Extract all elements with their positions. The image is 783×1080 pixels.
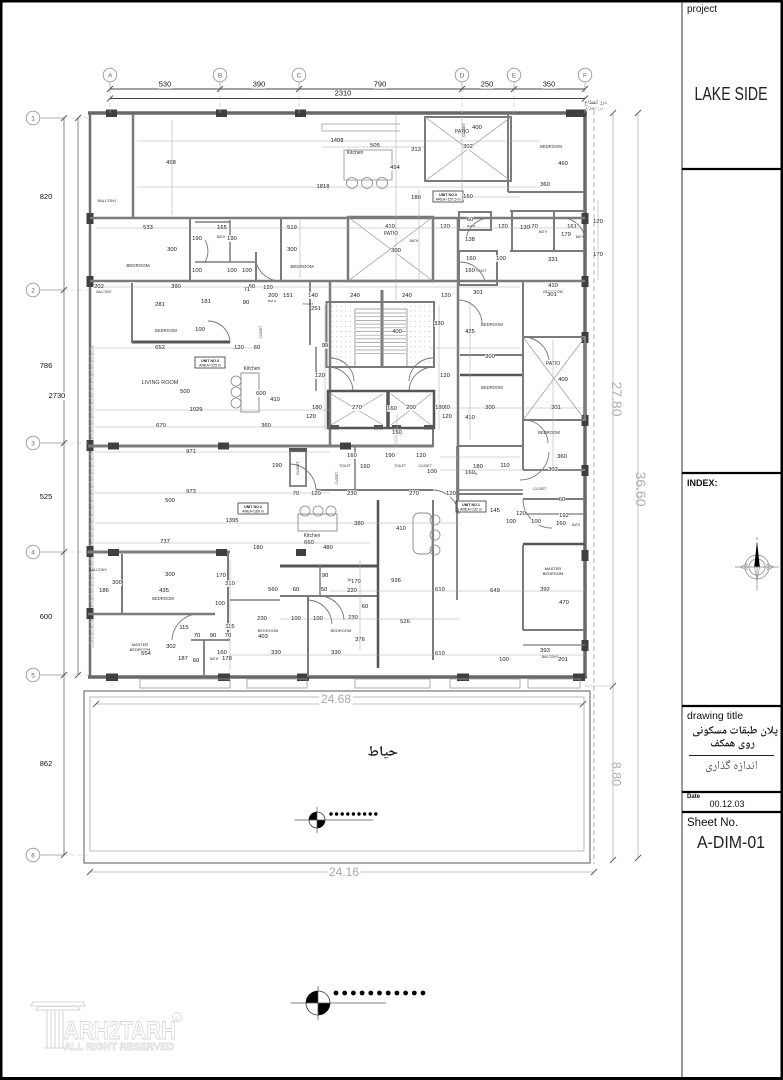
svg-text:200: 200 [268,293,278,299]
svg-text:100: 100 [195,327,205,333]
svg-text:120: 120 [442,414,452,420]
svg-text:drawing title: drawing title [687,710,743,722]
svg-text:470: 470 [559,600,569,606]
svg-text:60: 60 [293,587,299,593]
svg-text:100: 100 [427,469,437,475]
svg-text:UNIT NO.3: UNIT NO.3 [439,193,457,197]
svg-text:BEDROOM: BEDROOM [155,328,177,333]
svg-text:90: 90 [243,300,249,306]
svg-text:393: 393 [540,648,550,654]
svg-text:179: 179 [561,232,571,238]
svg-text:Kitchen: Kitchen [304,533,321,539]
svg-text:160: 160 [556,521,566,527]
svg-text:170: 170 [216,573,226,579]
svg-text:AREA=125 m: AREA=125 m [199,364,221,368]
svg-text:36.60: 36.60 [633,471,649,506]
svg-text:BEDROOM: BEDROOM [331,628,352,633]
svg-text:610: 610 [435,587,445,593]
svg-text:300: 300 [165,572,175,578]
svg-text:120: 120 [263,285,273,291]
svg-text:CLOSET: CLOSET [296,461,300,475]
svg-text:F: F [583,73,587,80]
svg-text:350: 350 [543,80,556,89]
svg-text:LIVING ROOM: LIVING ROOM [142,380,179,386]
svg-text:610: 610 [435,651,445,657]
svg-text:D: D [460,73,465,80]
svg-text:192: 192 [559,513,569,519]
svg-text:180: 180 [253,545,263,551]
svg-text:313: 313 [411,147,421,153]
svg-text:410: 410 [270,397,280,403]
svg-text:230: 230 [257,616,267,622]
svg-text:120: 120 [446,491,456,497]
svg-text:251: 251 [311,306,321,312]
svg-text:BEDROOM: BEDROOM [258,628,279,633]
svg-text:50: 50 [321,587,327,593]
svg-text:BATH: BATH [539,230,548,234]
svg-text:190: 190 [385,453,395,459]
svg-text:505: 505 [370,143,380,149]
svg-text:600: 600 [256,391,266,397]
svg-text:2730: 2730 [49,391,66,400]
svg-text:525: 525 [40,492,53,501]
svg-text:480: 480 [323,545,333,551]
svg-text:100: 100 [506,519,516,525]
svg-text:161: 161 [567,224,577,230]
svg-text:A: A [108,73,113,80]
svg-text:392: 392 [540,587,550,593]
svg-text:BATH: BATH [410,239,419,243]
svg-text:160: 160 [465,268,475,274]
svg-text:390: 390 [253,80,266,89]
svg-text:Date: Date [687,794,701,800]
svg-text:201: 201 [558,657,568,663]
svg-text:N: N [756,536,759,541]
svg-text:60: 60 [193,658,199,664]
svg-text:6: 6 [31,853,35,860]
svg-text:120: 120 [416,453,426,459]
svg-text:670: 670 [156,423,166,429]
svg-text:1: 1 [31,116,35,123]
svg-text:70: 70 [293,491,299,497]
svg-text:70: 70 [194,633,200,639]
svg-text:151: 151 [283,293,293,299]
svg-text:BEDROOM: BEDROOM [543,571,564,576]
svg-text:AREA=132 m: AREA=132 m [460,508,482,512]
svg-text:301: 301 [547,292,557,298]
svg-text:8.80: 8.80 [609,762,623,786]
svg-text:UNIT NO.2: UNIT NO.2 [244,505,262,509]
svg-text:300: 300 [485,354,495,360]
svg-text:UNIT NO.1: UNIT NO.1 [462,503,480,507]
svg-text:120: 120 [440,373,450,379]
svg-text:TOILET: TOILET [394,464,406,468]
svg-text:BEDROOM: BEDROOM [538,430,560,435]
svg-text:BATH: BATH [467,224,475,228]
svg-text:936: 936 [391,578,401,584]
svg-text:186: 186 [99,588,109,594]
svg-text:160: 160 [387,406,397,412]
svg-text:71: 71 [244,287,250,293]
svg-text:180: 180 [411,195,421,201]
svg-text:790: 790 [374,80,387,89]
svg-text:A-DIM-01: A-DIM-01 [697,832,765,852]
svg-text:100: 100 [531,519,541,525]
svg-text:100: 100 [215,601,225,607]
svg-text:281: 281 [155,302,165,308]
svg-text:138: 138 [465,237,475,243]
svg-text:BEDROOM: BEDROOM [290,264,314,269]
svg-text:300: 300 [287,247,297,253]
svg-text:project: project [687,4,717,15]
svg-text:60: 60 [362,604,368,610]
svg-text:160: 160 [466,256,476,262]
svg-text:CLOSET: CLOSET [533,487,547,491]
svg-text:250: 250 [481,80,494,89]
svg-text:120: 120 [441,293,451,299]
svg-text:400: 400 [472,125,482,131]
svg-text:560: 560 [268,587,278,593]
svg-text:178: 178 [222,656,232,662]
svg-text:973: 973 [186,489,196,495]
svg-text:B: B [218,73,222,80]
svg-text:554: 554 [141,651,151,657]
svg-text:2: 2 [31,288,35,295]
svg-text:CLOSET: CLOSET [335,472,339,485]
svg-text:600: 600 [40,612,53,621]
svg-text:410: 410 [548,283,558,289]
svg-text:301: 301 [473,290,483,296]
svg-text:100: 100 [242,268,252,274]
svg-text:500: 500 [165,498,175,504]
svg-text:360: 360 [540,182,550,188]
svg-text:90: 90 [210,633,216,639]
svg-text:302: 302 [166,644,176,650]
svg-text:190: 190 [272,463,282,469]
svg-text:530: 530 [159,80,172,89]
svg-text:BALCONY: BALCONY [89,568,108,572]
svg-text:400: 400 [558,377,568,383]
svg-text:300: 300 [112,580,122,586]
svg-text:120: 120 [311,491,321,497]
svg-text:E: E [512,73,517,80]
svg-text:160: 160 [360,464,370,470]
svg-text:140: 140 [308,293,318,299]
svg-text:230: 230 [348,615,358,621]
svg-text:BEDROOM: BEDROOM [481,385,503,390]
svg-text:380: 380 [354,521,364,527]
svg-text:Kitchen: Kitchen [347,150,364,156]
svg-text:100: 100 [227,268,237,274]
svg-text:BALCONY: BALCONY [97,198,116,203]
svg-text:CLOSET: CLOSET [462,123,466,137]
svg-text:526: 526 [400,619,410,625]
svg-text:120: 120 [498,224,508,230]
svg-text:100: 100 [192,268,202,274]
svg-text:BATH: BATH [217,235,226,239]
svg-text:500: 500 [180,389,190,395]
svg-text:160: 160 [347,453,357,459]
svg-text:862: 862 [40,759,53,768]
svg-text:403: 403 [258,634,268,640]
svg-text:60: 60 [559,497,565,503]
svg-text:240: 240 [350,293,360,299]
svg-text:CLOSET: CLOSET [259,326,263,339]
svg-text:BATH: BATH [268,299,276,303]
svg-text:190: 190 [227,236,237,242]
svg-text:494: 494 [390,165,400,171]
svg-text:498: 498 [166,160,176,166]
svg-text:120: 120 [516,511,526,517]
svg-text:4: 4 [31,550,35,557]
svg-text:200: 200 [406,405,416,411]
svg-text:TOILET: TOILET [339,464,351,468]
svg-text:270: 270 [352,405,362,411]
svg-text:170: 170 [351,579,361,585]
svg-text:737: 737 [160,539,170,545]
svg-text:181: 181 [201,299,211,305]
svg-text:240: 240 [402,293,412,299]
svg-text:90: 90 [322,573,328,579]
svg-text:BEDROOM: BEDROOM [126,263,150,268]
svg-text:TOILET: TOILET [475,269,486,273]
svg-text:LAKE SIDE: LAKE SIDE [695,84,768,104]
svg-text:00.12.03: 00.12.03 [709,799,744,809]
svg-text:410: 410 [385,224,395,230]
svg-text:820: 820 [40,192,53,201]
svg-text:331: 331 [548,257,558,263]
svg-text:CLOSET: CLOSET [418,464,432,468]
svg-text:BATH: BATH [572,523,581,527]
svg-text:110: 110 [500,463,509,469]
svg-text:460: 460 [558,161,568,167]
svg-text:786: 786 [40,361,53,370]
svg-text:360: 360 [557,454,567,460]
svg-text:INDEX:: INDEX: [687,478,718,488]
svg-text:187: 187 [178,656,188,662]
svg-text:300: 300 [167,247,177,253]
svg-text:100: 100 [496,256,506,262]
svg-text:AREA=157.5 m: AREA=157.5 m [436,198,461,202]
svg-text:BATH: BATH [210,657,219,661]
svg-text:c: c [175,1015,179,1022]
svg-text:BEDROOM: BEDROOM [481,322,503,327]
svg-text:410: 410 [396,526,406,532]
svg-text:302: 302 [463,144,473,150]
svg-text:160: 160 [465,470,475,476]
svg-text:ALL RIGHT RESERVED: ALL RIGHT RESERVED [64,1041,174,1053]
svg-text:120: 120 [440,224,450,230]
svg-text:120: 120 [315,373,325,379]
svg-text:AREA=160 m: AREA=160 m [242,510,264,514]
svg-text:5: 5 [31,673,35,680]
svg-text:360: 360 [261,423,271,429]
svg-text:230: 230 [347,491,357,497]
svg-text:Kitchen: Kitchen [244,366,261,372]
svg-text:2310: 2310 [335,89,352,98]
svg-text:UNIT NO.3: UNIT NO.3 [201,359,219,363]
svg-text:BALCONY: BALCONY [542,655,559,659]
svg-text:BEDROOM: BEDROOM [540,144,562,149]
svg-text:BATH: BATH [576,235,585,239]
svg-text:BALCONY: BALCONY [96,290,112,294]
svg-text:24.68: 24.68 [321,692,351,706]
svg-text:400: 400 [392,329,402,335]
svg-text:24.16: 24.16 [329,865,359,879]
svg-text:435: 435 [159,588,169,594]
svg-text:Sheet No.: Sheet No. [687,817,738,829]
svg-text:115: 115 [179,625,188,631]
svg-text:190: 190 [192,236,202,242]
svg-text:120: 120 [306,414,316,420]
svg-text:BEDROOM: BEDROOM [152,596,174,601]
svg-text:C: C [297,73,302,80]
svg-text:27.80: 27.80 [609,381,625,416]
svg-text:270: 270 [409,491,419,497]
svg-text:100: 100 [499,657,509,663]
svg-text:3: 3 [31,441,35,448]
svg-text:60: 60 [467,217,473,223]
svg-text:145: 145 [490,508,500,514]
